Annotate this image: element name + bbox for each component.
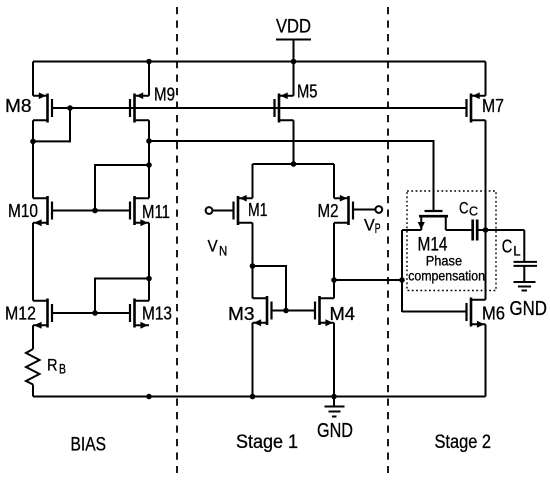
wire M10 M11 gate tie up xyxy=(95,165,149,211)
VDD supply symbol xyxy=(276,17,311,38)
wire M1 drain down to M3 xyxy=(252,223,254,299)
svg-text:M12: M12 xyxy=(5,304,36,324)
svg-text:C: C xyxy=(502,237,513,257)
label BIAS xyxy=(71,435,107,456)
node M9 drain xyxy=(146,138,152,144)
wire tail row xyxy=(253,163,335,165)
label VP xyxy=(364,217,381,237)
wire M11 drain down to M13 xyxy=(148,223,150,301)
svg-text:V: V xyxy=(364,217,375,235)
wire VDD stub xyxy=(293,40,295,62)
wire M10 drain down xyxy=(32,223,34,301)
wire RB to ground rail xyxy=(32,385,34,397)
node M12-M13 gate junction xyxy=(92,310,98,316)
svg-text:GND: GND xyxy=(317,420,353,442)
label Stage 2 xyxy=(435,432,492,453)
transistor M6 xyxy=(467,298,506,328)
wire tail to M1 source xyxy=(252,164,254,198)
transistor M13 xyxy=(130,299,172,329)
node VDD-M5 junction xyxy=(291,59,297,65)
wire M3-M4 gate row xyxy=(272,310,316,312)
svg-text:M3: M3 xyxy=(228,304,255,324)
transistor M4 xyxy=(315,296,355,326)
node M3 at rail xyxy=(250,394,256,400)
node M8 drain tie xyxy=(30,139,36,145)
svg-text:R: R xyxy=(47,356,58,375)
node GND tap xyxy=(331,394,337,400)
wire M12 source down to resistor xyxy=(32,325,34,349)
transistor M3 xyxy=(228,296,272,326)
svg-text:Phase: Phase xyxy=(426,254,462,269)
wire M8 drain down xyxy=(32,120,34,198)
svg-text:compensation: compensation xyxy=(408,268,485,283)
wire M8 gate-drain tie xyxy=(33,108,70,141)
wire M5 source from rail xyxy=(293,62,295,96)
wire left rail to M8 source xyxy=(32,62,34,96)
node stage1 output xyxy=(331,277,337,283)
node M13 at rail xyxy=(146,394,152,400)
svg-text:VDD: VDD xyxy=(276,17,311,38)
node M11 diode tie xyxy=(146,162,152,168)
wire CC to output node xyxy=(478,229,524,231)
wire rail to M7 source xyxy=(485,62,487,96)
label compensation xyxy=(408,268,485,283)
wire M4 source to rail xyxy=(333,323,335,397)
transistor M5 xyxy=(275,82,318,123)
wire bottom ground rail xyxy=(33,396,486,398)
capacitor CL xyxy=(502,237,537,266)
node tail junction xyxy=(291,161,297,167)
wire stage1 output row xyxy=(334,279,402,281)
node CC-output junction xyxy=(483,227,489,233)
transistor M14 xyxy=(418,211,449,256)
separator dashed line 1 xyxy=(176,7,178,473)
wire M10-M11 gate row xyxy=(52,210,130,212)
svg-text:M9: M9 xyxy=(154,85,175,105)
wire output node to CL xyxy=(523,230,525,261)
transistor M8 xyxy=(5,92,52,122)
svg-text:M1: M1 xyxy=(248,200,268,220)
wire M9 source from rail xyxy=(148,62,150,96)
transistor M9 xyxy=(130,85,175,123)
svg-text:C: C xyxy=(459,199,469,218)
svg-text:M14: M14 xyxy=(418,235,448,256)
wire PMOS common gate row xyxy=(52,107,467,109)
node M8 gate tie xyxy=(67,105,73,111)
wire M7 drain down to M6 xyxy=(485,120,487,300)
svg-text:V: V xyxy=(208,238,218,256)
wire output column xyxy=(401,230,403,312)
wire M6 source to rail xyxy=(485,324,487,396)
wire M3 source to rail xyxy=(252,323,254,397)
svg-text:P: P xyxy=(375,221,381,236)
ground symbol center xyxy=(317,397,353,443)
wire M12-M13 gate row xyxy=(52,312,130,314)
wire M6 gate lead row xyxy=(402,311,467,313)
wire M5 drain to tail xyxy=(293,120,295,164)
svg-text:C: C xyxy=(469,204,478,219)
transistor M7 xyxy=(467,92,505,122)
svg-text:GND: GND xyxy=(510,298,548,320)
svg-text:M6: M6 xyxy=(482,304,505,324)
svg-text:BIAS: BIAS xyxy=(71,435,107,456)
wire M9 drain down to M11 xyxy=(148,120,150,198)
transistor M12 xyxy=(5,299,52,329)
svg-text:M2: M2 xyxy=(318,201,339,221)
node M13 diode tie xyxy=(146,276,152,282)
wire top supply rail xyxy=(33,61,486,63)
svg-text:N: N xyxy=(219,244,227,259)
svg-text:M4: M4 xyxy=(330,304,356,324)
label Stage 1 xyxy=(236,432,298,453)
resistor RB xyxy=(26,349,66,385)
wire tail to M2 source xyxy=(333,164,335,198)
svg-text:M11: M11 xyxy=(142,202,170,222)
svg-text:M8: M8 xyxy=(5,96,31,116)
separator dashed line 2 xyxy=(387,7,389,473)
transistor M11 xyxy=(130,196,170,226)
wire M14 right to CC xyxy=(446,229,472,231)
svg-text:Stage 2: Stage 2 xyxy=(435,432,492,453)
capacitor CC xyxy=(459,199,478,241)
node M3-M4 gate junction xyxy=(283,308,289,314)
wire M3-M4 gate tie xyxy=(253,266,287,311)
svg-text:L: L xyxy=(513,244,521,259)
dotted box phase compensation xyxy=(407,191,496,291)
wire output to M14 left xyxy=(402,229,421,231)
node rail-M9 junction xyxy=(146,59,152,65)
wire M12 M13 gate tie up xyxy=(95,279,149,314)
svg-text:M7: M7 xyxy=(482,96,504,116)
wire CL to ground xyxy=(523,266,525,282)
label VN xyxy=(208,238,228,259)
label Phase xyxy=(426,254,462,269)
svg-text:Stage 1: Stage 1 xyxy=(236,432,298,453)
wire bias to M14 gate xyxy=(149,141,434,211)
transistor M1 xyxy=(206,195,268,225)
ground symbol right xyxy=(510,282,548,320)
transistor M10 xyxy=(8,196,52,226)
svg-text:M13: M13 xyxy=(142,304,172,324)
node M10-M11 gate junction xyxy=(92,208,98,214)
svg-text:M5: M5 xyxy=(297,82,318,102)
svg-text:M10: M10 xyxy=(8,201,38,221)
transistor M2 xyxy=(318,195,383,225)
node output column junction xyxy=(399,277,405,283)
node M1-M3 tie xyxy=(250,263,256,269)
wire M2 drain down to M4 xyxy=(333,223,335,299)
svg-text:B: B xyxy=(59,362,66,377)
